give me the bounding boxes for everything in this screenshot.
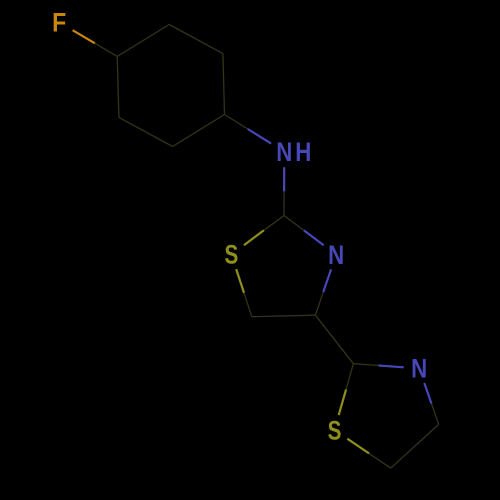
bond C2b-C3b <box>169 25 223 54</box>
bond F1-C1 <box>73 30 95 43</box>
bond C6b-C1 <box>117 56 119 117</box>
bond N3p-C4p <box>424 383 431 404</box>
bond S1p-C2p <box>339 389 346 415</box>
bond C5-S1 <box>244 293 252 317</box>
bond C4b-NH <box>225 115 248 130</box>
svg-text:S: S <box>225 240 239 270</box>
bond C4b-C5b <box>173 115 225 147</box>
bond C1-C2b <box>117 25 169 57</box>
bond C2-S1 <box>264 216 284 231</box>
svg-text:S: S <box>328 416 342 446</box>
bond NH-C2 <box>283 167 285 191</box>
svg-text:F: F <box>52 9 66 38</box>
svg-text:NH: NH <box>276 138 314 167</box>
bond C2p-N3p <box>353 364 378 366</box>
bond C4-C5 <box>252 315 316 317</box>
bond C2-N3 <box>284 216 304 231</box>
bond C4-C2p <box>315 315 353 364</box>
bond C3b-C4b <box>223 54 225 115</box>
bond C5p-S1p <box>369 453 391 468</box>
bond C5b-C6b <box>119 117 173 146</box>
svg-text:N: N <box>411 355 427 384</box>
bond N3-C4 <box>323 269 331 292</box>
svg-text:N: N <box>328 241 344 270</box>
bond C4p-C5p <box>391 424 439 468</box>
